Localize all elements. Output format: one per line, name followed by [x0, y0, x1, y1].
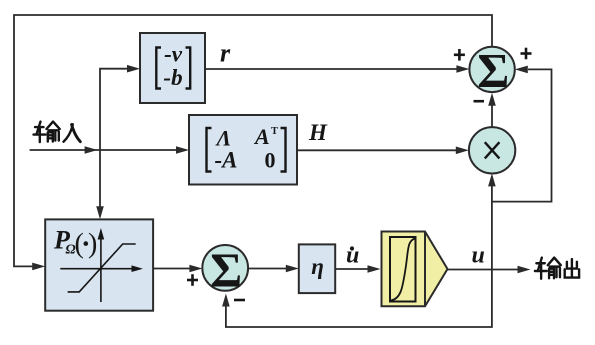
summator S1: [469, 43, 514, 98]
block eta (gain): [299, 244, 335, 293]
wire: r output of B1 to summator S1: [205, 65, 469, 73]
wire: eta output to integrator: [335, 265, 380, 273]
svg-text:): ): [88, 229, 97, 260]
wire: summator S1 output loop (top/left) into projection block: [14, 15, 492, 270]
block P_Omega projection with saturation graph: [45, 219, 153, 310]
wire: feedback branch right and up to summator S1 right input: [492, 66, 552, 202]
label 输入 (input): [34, 122, 81, 143]
svg-text:u: u: [472, 243, 485, 269]
svg-text:r: r: [220, 39, 231, 68]
svg-text:0: 0: [265, 148, 276, 173]
block B2 matrix H: [189, 115, 297, 185]
svg-text:u: u: [346, 243, 359, 269]
svg-text:T: T: [271, 126, 278, 137]
svg-text:-A: -A: [215, 148, 238, 173]
wire: projection output to summator S2: [153, 265, 202, 273]
svg-text:η: η: [311, 254, 324, 279]
svg-text:Σ: Σ: [477, 43, 509, 98]
summator S2: [202, 242, 248, 297]
label 输出 (output): [535, 258, 579, 279]
wire: bottom feedback from u line to S2 bottom input: [222, 270, 492, 328]
svg-text:-b: -b: [163, 65, 182, 90]
sign − (S2 bottom input): [234, 299, 245, 302]
wire: multiplier M1 output up into summator S1: [488, 93, 496, 127]
wire: u output line: [448, 266, 531, 274]
sign + (S1 right input): [521, 48, 532, 60]
block B1 [-v;-b]: [140, 33, 205, 103]
integrator block (yellow): [382, 232, 448, 307]
wire: input line: [30, 146, 189, 154]
multiplier M1 (product node): [469, 127, 515, 173]
sign + (S1 left input): [454, 49, 465, 61]
svg-text:(: (: [75, 229, 84, 260]
sign − (S1 bottom input): [474, 100, 485, 103]
svg-text:-v: -v: [164, 42, 183, 67]
svg-text:Σ: Σ: [210, 242, 242, 297]
svg-text:H: H: [308, 120, 328, 145]
wire: junction at (100,150) up and into block B1: [100, 65, 140, 150]
wire: junction at (100,150) down into projection block top: [96, 150, 104, 219]
wire: H output to multiplier M1: [297, 147, 469, 155]
sign + (S2 left input): [187, 274, 198, 286]
wire: S2 output to eta block: [248, 265, 299, 273]
wire: feedback from u line up into multiplier M1: [488, 173, 496, 269]
label u-dot: [346, 243, 359, 269]
svg-text:A: A: [253, 124, 270, 149]
